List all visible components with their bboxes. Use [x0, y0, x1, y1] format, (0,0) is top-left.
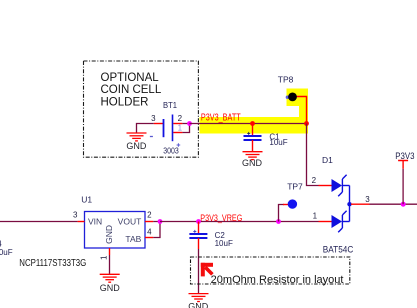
svg-text:3003: 3003: [163, 146, 179, 155]
wire TP8 junction down to D1 pin 2: [307, 124, 319, 186]
svg-text:VOUT: VOUT: [118, 216, 142, 226]
svg-text:10uF: 10uF: [215, 239, 233, 248]
wire D1 pin3 to P3V3: [370, 203, 417, 205]
svg-text:GND: GND: [104, 225, 114, 244]
svg-text:GND: GND: [188, 302, 209, 308]
svg-text:1: 1: [178, 123, 183, 132]
svg-text:2: 2: [147, 211, 152, 220]
junction VOUT (magenta): [158, 219, 163, 224]
svg-text:4: 4: [0, 239, 2, 248]
junction TP8 corner (red): [304, 121, 309, 126]
svg-text:20mOhm Resistor in layout: 20mOhm Resistor in layout: [211, 274, 344, 286]
capacitor C1: [244, 124, 288, 152]
note text OPTIONAL COIN CELL HOLDER: [101, 72, 162, 109]
wire into U1 VIN from left edge: [0, 221, 78, 223]
ground GND (C1): [243, 152, 263, 160]
svg-text:2: 2: [178, 114, 183, 123]
svg-text:10uF: 10uF: [269, 138, 287, 147]
svg-text:3: 3: [365, 195, 370, 204]
capacitor C2: [189, 222, 233, 250]
svg-text:OPTIONAL: OPTIONAL: [101, 72, 160, 84]
junction battery output (magenta): [187, 121, 192, 126]
svg-text:1: 1: [100, 255, 109, 260]
svg-text:4: 4: [147, 228, 152, 237]
svg-text:HOLDER: HOLDER: [101, 97, 149, 109]
battery BT1: [150, 100, 183, 155]
junction C2 (magenta): [196, 219, 201, 224]
wire battery pin3 to GND: [137, 124, 154, 133]
junction P3V3 (magenta): [401, 202, 406, 207]
svg-text:P3V3: P3V3: [395, 151, 414, 162]
svg-text:3: 3: [73, 211, 78, 220]
svg-text:COIN CELL: COIN CELL: [101, 84, 162, 96]
svg-text:GND: GND: [242, 158, 263, 168]
svg-text:BAT54C: BAT54C: [323, 244, 354, 255]
wire U1 pin2 / pin4 to VREG junction: [153, 222, 160, 238]
highlight P3V3_BATT net (yellow): [200, 89, 309, 134]
ground GND (U1): [100, 274, 120, 282]
dotted annotation box 20mOhm: [191, 257, 350, 284]
junction C1 (red): [250, 121, 255, 126]
regulator U1: [19, 194, 153, 268]
diode D1 dual BAT54C: [312, 155, 371, 255]
svg-text:10uF: 10uF: [0, 248, 13, 257]
svg-text:3: 3: [151, 114, 156, 123]
junction TP7 (magenta): [276, 219, 281, 224]
svg-text:BT1: BT1: [163, 100, 177, 110]
svg-text:P3V3_BATT: P3V3_BATT: [201, 113, 241, 124]
wire P3V3_VREG horizontal: [160, 221, 319, 223]
wire P3V3_BATT horizontal: [190, 123, 307, 125]
test point TP7: [279, 181, 304, 221]
svg-text:TAB: TAB: [125, 234, 141, 244]
ground GND (C2): [189, 294, 209, 302]
svg-text:1: 1: [313, 212, 318, 221]
wire C2 to GND: [198, 249, 200, 293]
power symbol P3V3: [395, 151, 414, 204]
annotation red arrow: [201, 263, 213, 277]
wire battery pins 1,2 to output junction: [182, 124, 189, 133]
svg-text:GND: GND: [126, 141, 147, 151]
svg-text:NCP1117ST33T3G: NCP1117ST33T3G: [19, 258, 86, 269]
svg-text:TP7: TP7: [287, 181, 303, 191]
svg-text:P3V3_VREG: P3V3_VREG: [200, 213, 242, 223]
svg-text:D1: D1: [322, 155, 333, 165]
svg-text:VIN: VIN: [88, 216, 102, 226]
svg-text:2: 2: [312, 176, 317, 185]
svg-text:U1: U1: [81, 194, 92, 204]
svg-text:GND: GND: [100, 283, 121, 293]
test point TP8: [278, 75, 307, 124]
wire U1 pin1 to GND: [109, 255, 111, 274]
ground GND (battery): [127, 133, 147, 141]
svg-text:TP8: TP8: [278, 75, 294, 85]
dotted box OPTIONAL COIN CELL HOLDER: [84, 61, 199, 157]
